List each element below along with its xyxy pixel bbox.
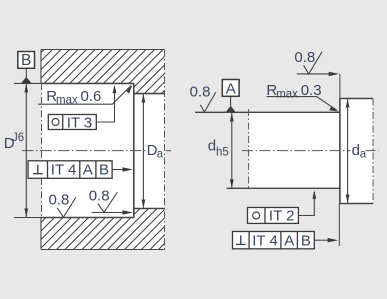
svg-text:IT 3: IT 3 xyxy=(67,114,93,131)
svg-text:0.6: 0.6 xyxy=(81,88,102,105)
svg-text:h5: h5 xyxy=(216,147,229,159)
svg-text:IT 4: IT 4 xyxy=(51,162,77,179)
svg-text:0.8: 0.8 xyxy=(89,188,110,205)
svg-text:a: a xyxy=(157,149,164,161)
svg-text:d: d xyxy=(352,142,360,159)
svg-text:d: d xyxy=(208,138,216,155)
svg-text:0.8: 0.8 xyxy=(49,192,70,209)
svg-text:0.8: 0.8 xyxy=(294,49,315,66)
svg-text:IT 4: IT 4 xyxy=(252,232,278,249)
svg-text:B: B xyxy=(21,52,31,69)
svg-text:0.8: 0.8 xyxy=(190,84,211,101)
svg-text:J6: J6 xyxy=(12,132,24,144)
svg-text:a: a xyxy=(360,149,367,161)
svg-text:max: max xyxy=(276,88,298,100)
svg-text:B: B xyxy=(301,232,311,249)
svg-text:B: B xyxy=(99,162,109,179)
svg-text:A: A xyxy=(83,162,93,179)
svg-text:A: A xyxy=(284,232,294,249)
svg-text:A: A xyxy=(226,80,236,97)
svg-text:IT 2: IT 2 xyxy=(269,208,295,225)
